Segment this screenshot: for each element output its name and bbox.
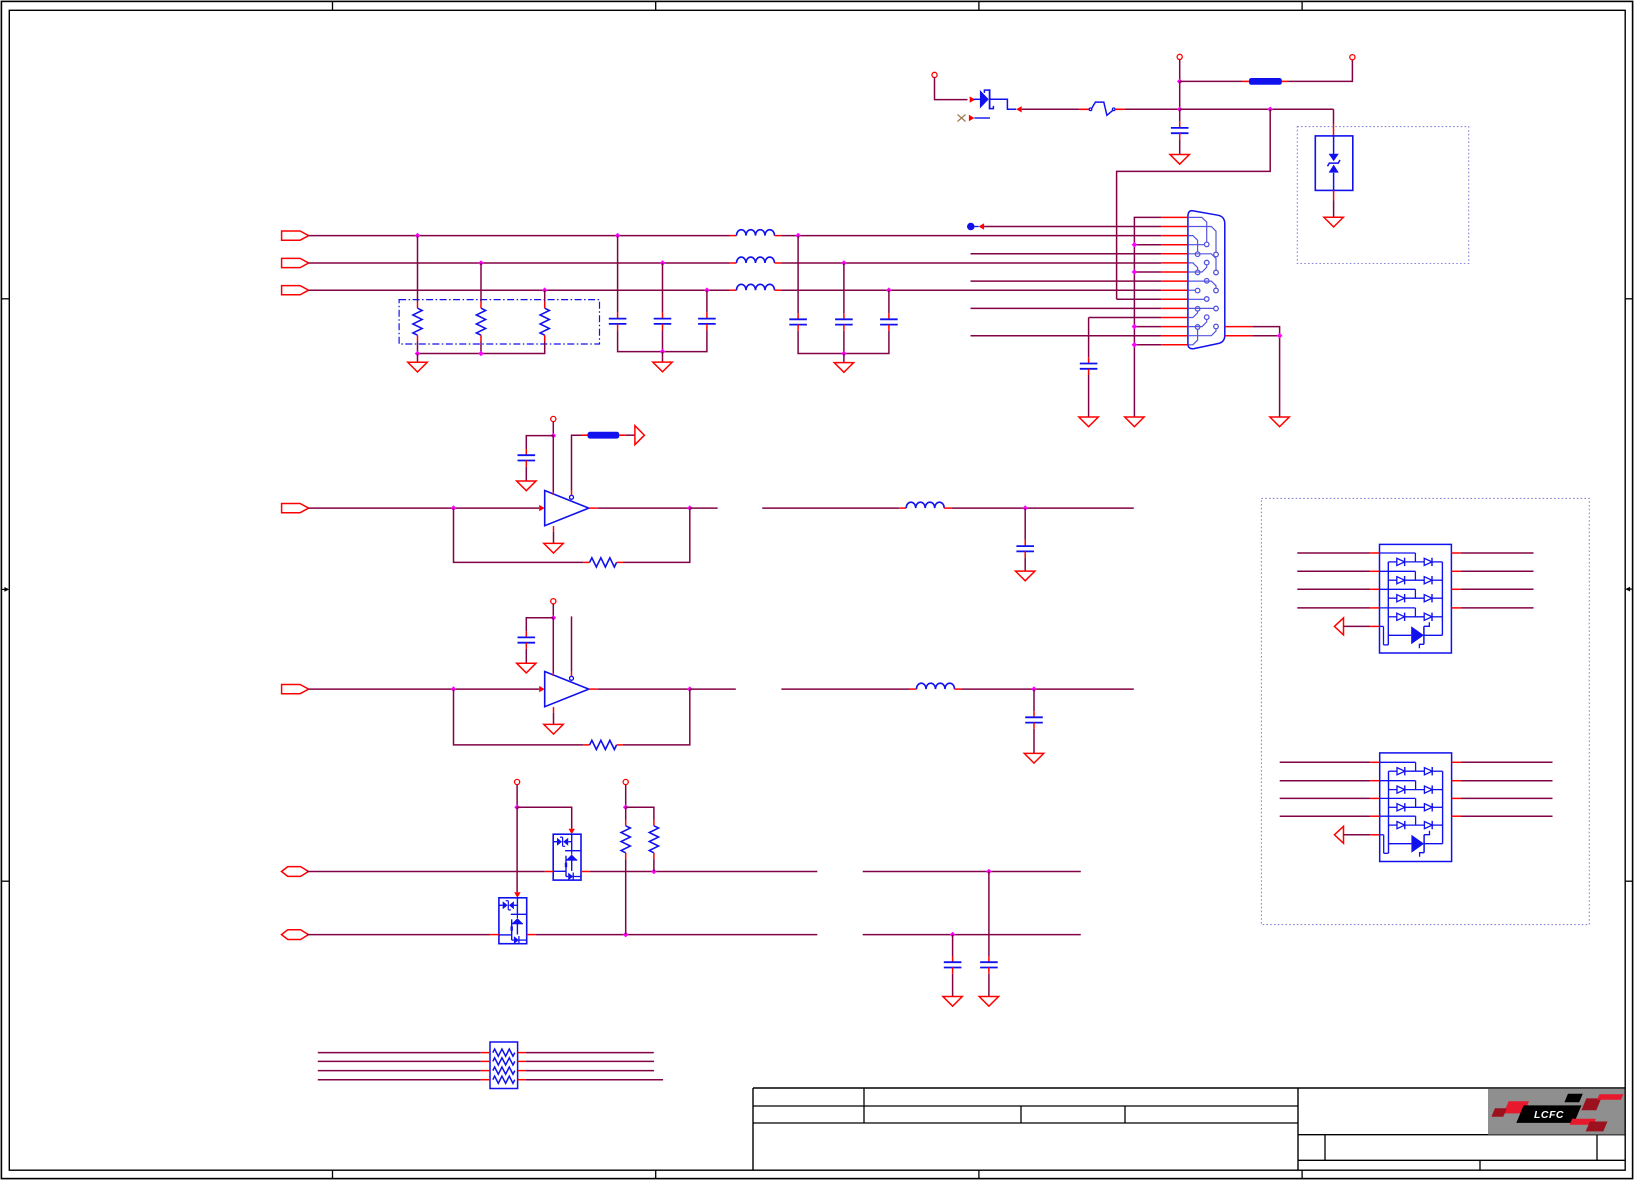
border zone ticks left [1,299,9,881]
resistor R5 [649,820,658,860]
border zone ticks bottom [333,1170,1303,1178]
wire [526,1052,654,1054]
wire [935,78,968,100]
port HSYNC bidirectional [282,867,309,877]
inductor L1 [730,230,782,236]
wire to ground [843,354,845,363]
wire to ESD1 [517,807,572,829]
wire [625,785,627,808]
capacitor C11 [1025,711,1043,729]
wire C4 drop [706,290,708,312]
diode array box [1380,544,1452,653]
wire cap to ground [525,467,527,481]
junction [514,804,520,810]
border zone ticks right [1625,299,1632,881]
wire [1179,60,1181,82]
junction [623,804,629,810]
power pin circle [551,599,556,604]
junction [1132,342,1138,348]
wire [1134,344,1161,346]
wire bead to power pin P3 [1288,60,1352,82]
wire bead to port [626,434,635,436]
wire [1134,271,1161,273]
inductor L3 [730,284,782,290]
wire video line 1 [309,235,730,237]
resistor pack stubs [481,1053,526,1080]
wire node vertical [1179,81,1181,109]
junction [478,351,484,357]
fuse F1 [1079,102,1124,115]
resistor network dash box [399,300,599,344]
diode array internals [1380,762,1443,856]
wire line1 after L1 [782,235,1162,237]
pin arrow down [514,892,520,898]
capacitor C3 [654,312,672,330]
op-amp U [545,491,589,526]
ground [1324,217,1343,227]
junction [415,351,421,357]
junction [1177,79,1183,85]
port gnd ref [1334,618,1343,635]
inductor L4 [899,502,951,508]
diode array pin stubs [1370,762,1461,835]
wire [526,1079,663,1081]
capacitor C13 [980,956,998,974]
border center arrow left [1,587,9,592]
power pin circle [551,416,556,421]
wire [318,1060,481,1062]
wire power to op-amp [552,436,554,493]
capacitor C2 [609,312,627,330]
junction [542,287,548,293]
wire [1461,588,1534,590]
ground [1016,571,1035,581]
wire [318,1070,481,1072]
port output [635,426,645,445]
large dotted box [1261,498,1589,924]
junction [651,869,657,875]
wire power [552,422,554,436]
wire shell tab 1 [1252,327,1279,417]
wire LC row 1 [762,507,899,509]
diode D1 [974,89,1017,109]
wire [480,342,482,354]
wire TVS drop [1333,109,1335,124]
junction [704,287,710,293]
small dotted box [1297,127,1468,264]
power pin P1 circle [932,72,937,77]
border center arrow right [1625,587,1632,592]
wire to ground [1024,558,1026,572]
junction [795,233,801,239]
wire [962,688,1134,690]
port VSYNC bidirectional [282,930,309,940]
capacitor C5 [789,313,807,331]
ground [517,481,536,491]
junction [415,233,421,239]
wire LC row 2 [781,688,909,690]
resistor R3 [540,302,549,342]
wire C11 drop [1033,689,1035,711]
ground [979,997,998,1007]
junction [660,349,666,355]
junction [1132,324,1138,330]
junction [660,260,666,266]
junction [1132,269,1138,275]
wire pin5 [971,253,1162,255]
connector J1 body [1188,211,1225,349]
resistor pack RN1 [490,1042,518,1089]
wire enable to bead [571,491,573,496]
diode array box [1380,753,1452,862]
junction [950,932,956,938]
wire pin2 DDC node [967,223,1161,231]
resistor feedback [583,558,623,567]
resistor R4 [621,820,630,860]
wire [526,1070,654,1072]
ferrite bead FB1 [1242,78,1288,85]
inductor L5 [910,683,962,689]
junction [841,260,847,266]
wire [1461,761,1553,763]
wire to Rb [626,807,654,819]
junction [1022,505,1028,511]
junction [1267,107,1273,113]
wire VSYNC right segment [863,934,1081,936]
wire C6 drop [843,263,845,313]
wire to bypass cap [526,618,553,631]
wire [1134,326,1161,328]
wire output [589,688,598,690]
ground [1079,417,1098,427]
wire R4 to line [625,859,627,935]
wire [1297,607,1370,609]
wire line3 after L3 [782,289,1162,291]
power pin circle [623,779,628,784]
wire to ground [952,974,954,997]
wire [1297,552,1370,554]
junction [841,351,847,357]
wire [1461,780,1553,782]
wire cap bus 2 [798,331,889,354]
wire pin14 [971,335,1162,337]
ESD suppressor D4 [499,898,527,944]
wire [1280,815,1371,817]
wire [318,1052,481,1054]
wire fuse to node [1125,108,1180,110]
wire pin8 [971,280,1162,282]
ground [1170,155,1189,165]
junction [615,233,621,239]
ground [943,997,962,1007]
capacitor C8 [1080,357,1098,375]
wire C13 drop [988,872,990,957]
pin arrow [539,686,545,692]
wire cap bus 1 [618,330,707,352]
wire cap to ground [525,649,527,663]
wire [1461,815,1553,817]
junction [551,433,557,439]
ground [834,363,853,373]
svg-text:LCFC: LCFC [1534,1109,1564,1121]
no-connect pin of D1 [958,115,991,122]
wire pin12 corner [1089,317,1162,319]
wire output tail [690,507,718,509]
wire pin11 [971,307,1162,309]
port input [282,685,309,694]
capacitor bypass [518,631,536,649]
pin arrow down [569,829,575,835]
wire video line 2 [309,262,730,264]
capacitor C6 [835,313,853,331]
ground [1125,417,1144,427]
wire C2 drop [617,236,619,313]
wire C8 drop [1088,318,1090,358]
capacitor C4 [698,312,716,330]
border zone ticks top [333,1,1303,10]
TVS diode D2 [1315,136,1353,191]
ground [1270,417,1289,427]
wire input [309,688,540,690]
wire op-amp ground pin [553,526,555,532]
wire [526,1060,654,1062]
wire port [1344,834,1371,836]
wire [843,331,845,354]
wire C8 to ground [1088,375,1090,417]
capacitor C7 [880,313,898,331]
wire to ground [417,354,419,363]
port gnd ref [1334,826,1343,843]
junction [451,686,457,692]
wire port [1344,625,1371,627]
wire R5 to line [653,859,655,871]
wire to ground [1033,729,1035,754]
ferrite bead FB2 [581,432,626,439]
title block lines [753,1088,1625,1170]
capacitor bypass [518,449,536,467]
red stub TVS [1333,124,1335,136]
wire feedback left [454,508,584,562]
pin arrow [539,505,545,511]
LCFC logo [1488,1089,1625,1135]
wire power [552,604,554,618]
wire HSYNC right segment [863,871,1081,873]
wire ground bus [1134,217,1161,417]
junction [1031,686,1037,692]
port input [282,504,309,513]
wire R1 top [417,236,419,302]
wire R2 top [480,263,482,302]
junction [478,260,484,266]
junction [687,505,693,511]
wire line2 after L2 [782,262,1162,264]
wire video line 3 [309,289,730,291]
wire output [589,507,598,509]
wire C12 drop [952,935,954,956]
ground [544,543,563,553]
wire [1461,570,1534,572]
port RED input [282,231,309,240]
ground [653,362,672,372]
junction [1277,333,1283,339]
wire enable stub [571,672,573,677]
wire [1461,797,1553,799]
ground [517,663,536,673]
capacitor C1 [1179,109,1181,121]
connector J1 pin circles [1195,242,1218,329]
wire to bead [1180,80,1243,82]
wire VSYNC line [307,934,817,936]
ground [544,724,563,734]
wire [951,507,1134,509]
resistor feedback [583,740,623,749]
wire [1280,780,1371,782]
junction [886,287,892,293]
wire resistor bus [418,342,545,354]
ground [1024,753,1043,763]
wire output tail [690,688,736,690]
red stub [1333,190,1335,200]
junction [1132,242,1138,248]
port BLUE input [282,286,309,295]
wire feedback left [454,689,584,745]
connector J1 pin stubs [1161,217,1252,344]
wire [1280,761,1371,763]
wire [516,785,518,808]
junction [623,932,629,938]
junction [986,869,992,875]
junction [451,505,457,511]
wire feedback [623,689,690,745]
junction [687,686,693,692]
power pin P2 circle [1177,54,1182,59]
resistor R1 [413,302,422,342]
op-amp U [545,672,589,707]
power pin circle [515,779,520,784]
wire [318,1079,481,1081]
wire R3 top [544,290,546,302]
wire C7 drop [888,290,890,313]
wire D1 to fuse [1022,108,1080,110]
capacitor C12 [944,956,962,974]
ground [408,362,427,372]
diode array pin stubs [1370,553,1461,626]
wire C3 drop [662,263,664,312]
wire C10 drop [1024,508,1026,540]
ESD suppressor D3 [553,834,581,880]
wire pin10 [1117,298,1162,300]
diode array internals [1380,553,1443,648]
wire [1461,607,1534,609]
power pin P3 circle [1350,55,1355,60]
junction [551,615,557,621]
wire C5 drop [797,236,799,314]
wire [1461,552,1534,554]
wire [1297,588,1370,590]
wire ESD2 drop [516,807,518,892]
junction [1177,107,1183,113]
wire TVS to ground [1333,200,1335,217]
wire [662,330,664,352]
wire C1 to ground [1179,139,1181,154]
wire to ground [988,974,990,997]
wire node to TVS corner [1180,108,1334,110]
port GREEN input [282,258,309,267]
wire HSYNC line [307,871,817,873]
wire feedback [623,508,690,562]
wire [1297,570,1370,572]
wire arrow into D1 [1016,106,1022,112]
wire [1280,797,1371,799]
wire input [309,507,540,509]
inductor L2 [730,257,782,263]
wire shell tab 2 [1252,335,1279,337]
wire arrow [970,96,976,102]
wire Ra drop [625,807,627,819]
wire to bypass cap [526,436,553,449]
wire to ground [662,352,664,363]
wire to DDC net [1117,109,1271,299]
wire [1134,244,1161,246]
connector J1 internal traces [1189,217,1216,344]
wire power to op-amp [552,618,554,673]
resistor R2 [476,302,485,342]
wire op-amp ground pin [553,707,555,713]
capacitor C10 [1016,540,1034,558]
